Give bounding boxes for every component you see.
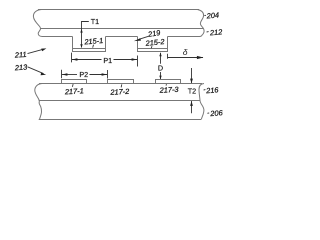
svg-text:δ: δ xyxy=(183,47,188,57)
svg-text:216: 216 xyxy=(205,85,220,95)
svg-text:217-3: 217-3 xyxy=(158,85,179,95)
svg-text:T1: T1 xyxy=(91,17,99,26)
svg-text:217-1: 217-1 xyxy=(64,86,84,96)
svg-text:P2: P2 xyxy=(79,70,88,79)
svg-text:211: 211 xyxy=(14,50,27,60)
svg-text:D: D xyxy=(158,64,163,73)
svg-text:204: 204 xyxy=(205,10,219,20)
svg-text:215-2: 215-2 xyxy=(144,37,165,48)
svg-text:P1: P1 xyxy=(103,56,112,65)
svg-text:217-2: 217-2 xyxy=(109,87,129,97)
svg-text:215-1: 215-1 xyxy=(83,36,104,47)
svg-text:T2: T2 xyxy=(188,87,196,96)
svg-text:213: 213 xyxy=(14,62,29,72)
svg-text:219: 219 xyxy=(146,28,160,39)
svg-text:206: 206 xyxy=(209,108,224,118)
svg-text:212: 212 xyxy=(209,27,223,37)
